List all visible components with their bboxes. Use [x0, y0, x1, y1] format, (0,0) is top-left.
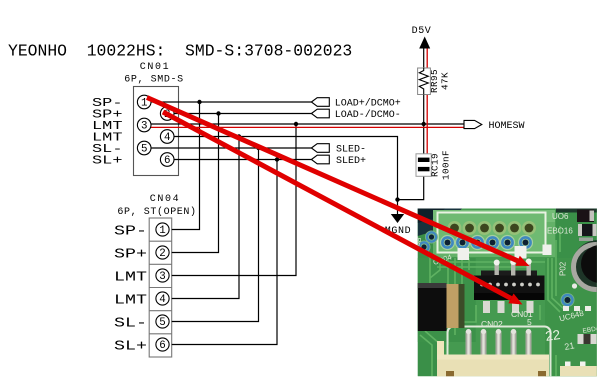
- svg-text:3: 3: [141, 120, 147, 132]
- svg-text:LOAD+/DCMO+: LOAD+/DCMO+: [335, 98, 401, 110]
- wire ground stub: [397, 200, 399, 214]
- svg-text:SLED-: SLED-: [336, 145, 366, 156]
- connector CN01 body: [134, 87, 179, 176]
- svg-text:22: 22: [544, 327, 561, 344]
- CN01 pin 2: [160, 107, 174, 121]
- red callout arrow A: [147, 98, 518, 261]
- svg-text:RR95: RR95: [429, 69, 440, 93]
- svg-text:21: 21: [564, 340, 576, 352]
- wire CN01 pin2 to LOAD- flag: [174, 113, 311, 115]
- CN01 pin 4: [160, 130, 174, 144]
- svg-text:RC19: RC19: [430, 153, 441, 177]
- red highlight vertical wire: [426, 44, 428, 154]
- CN01 pin 1: [137, 95, 151, 109]
- junction dot net2: [216, 111, 220, 115]
- svg-text:SL+: SL+: [114, 339, 147, 355]
- junction dot HOMESW node: [422, 122, 426, 126]
- wire node to capacitor: [423, 124, 425, 154]
- wire CN01 pin1 to LOAD+ flag: [151, 101, 312, 103]
- svg-text:6: 6: [159, 340, 165, 352]
- resistor RR95 zigzag: [419, 68, 428, 95]
- svg-text:EBO16: EBO16: [547, 227, 573, 236]
- photo crimp pins: [466, 329, 532, 358]
- photo lower hole row blue rings: [440, 235, 533, 250]
- flag HOMESW: [464, 120, 482, 128]
- svg-text:CN01: CN01: [140, 62, 170, 73]
- svg-text:SP-: SP-: [114, 224, 147, 240]
- wire CN01 pin4 to ground corner: [174, 137, 398, 200]
- photo traces: [420, 226, 565, 376]
- power D5V arrow: [419, 37, 430, 49]
- wire CN01 pin6 to SLED+ flag: [174, 159, 311, 161]
- junction dot net4: [237, 134, 241, 138]
- svg-text:100nF: 100nF: [441, 150, 452, 180]
- photo beige connector CN02: [437, 341, 444, 377]
- photo black component left: [418, 283, 447, 331]
- photo background pcb green: [418, 209, 597, 377]
- wire resistor to node: [423, 95, 425, 125]
- photo left margin holes: [425, 231, 438, 244]
- svg-text:D5V: D5V: [412, 26, 432, 37]
- photo silkscreen round outline: [448, 327, 551, 380]
- svg-text:LMT: LMT: [114, 270, 147, 286]
- red highlight horizontal wire: [151, 126, 464, 128]
- photo electrolytic cap P02: [572, 240, 606, 292]
- svg-text:LMT: LMT: [114, 293, 147, 309]
- svg-text:47K: 47K: [440, 72, 451, 90]
- wire CN01 pin5 to SLED- flag: [151, 147, 312, 149]
- photo connector pin heads row: [480, 283, 540, 287]
- wire D5V to resistor: [423, 46, 425, 68]
- svg-text:SP+: SP+: [114, 247, 147, 263]
- CN01 pin 3: [137, 118, 151, 132]
- wire capacitor to ground: [398, 176, 424, 199]
- photo resistor smd right: [578, 334, 597, 344]
- photo connector CN01 black body: [481, 271, 537, 277]
- flag SLED+: [311, 155, 329, 164]
- CN01 pin 5: [137, 141, 151, 155]
- CN04 pin 3: [156, 269, 169, 282]
- svg-text:1: 1: [159, 225, 165, 237]
- wire net2 vertical to CN04 pin2: [172, 114, 219, 253]
- wire net3 vertical to CN04 pin3: [172, 124, 296, 276]
- svg-text:CN04: CN04: [150, 194, 180, 205]
- svg-text:YEONHO 10022HS: SMD-S:3708-0: YEONHO 10022HS: SMD-S:3708-002023: [8, 42, 352, 61]
- svg-text:4: 4: [164, 132, 170, 144]
- photo dark top-left corner: [418, 209, 462, 237]
- junction dot net1: [197, 100, 201, 104]
- photo silkscreen rectangle: [438, 213, 546, 253]
- wire net6 vertical to CN04 pin6: [172, 160, 277, 345]
- svg-text:LOAD-/DCMO-: LOAD-/DCMO-: [335, 109, 401, 121]
- photo copper pour light region: [433, 210, 555, 257]
- CN04 pin 5: [156, 315, 169, 328]
- svg-text:3: 3: [159, 271, 165, 283]
- wire net1 vertical to CN04 pin1: [172, 102, 200, 230]
- wires black: [151, 46, 464, 345]
- wire net4 vertical to CN04 pin4: [172, 137, 239, 299]
- flag LOAD-/DCMO-: [311, 109, 329, 118]
- junction dot net3: [294, 122, 298, 126]
- photo small beige connector bottom right: [565, 362, 571, 368]
- resistor RR95 body: [418, 68, 431, 95]
- svg-text:4: 4: [159, 294, 165, 306]
- capacitor RC19 plates: [418, 158, 430, 162]
- svg-text:SL+: SL+: [92, 154, 123, 168]
- CN04 pin 1: [156, 223, 169, 236]
- CN04 pin 6: [156, 338, 169, 351]
- photo upper hole row: [448, 221, 537, 235]
- photo connector top pins: [494, 259, 532, 276]
- junction dot net6: [275, 157, 279, 161]
- junction dot ground node: [395, 197, 399, 201]
- red callout arrow B: [163, 112, 511, 298]
- ground MGND symbol: [391, 214, 404, 223]
- CN04 pin 4: [156, 292, 169, 305]
- svg-text:SLED+: SLED+: [336, 156, 366, 167]
- svg-text:5: 5: [159, 317, 165, 329]
- junction dot net5: [256, 146, 260, 150]
- CN04 pin 2: [156, 246, 169, 259]
- svg-text:2: 2: [159, 248, 165, 260]
- photo small white pads right: [563, 306, 569, 311]
- photo blue hole near cap: [561, 293, 575, 307]
- CN01 pin 6: [160, 153, 174, 167]
- connector CN04 body: [149, 218, 172, 357]
- wire CN01 pin3 to HOMESW flag: [151, 123, 464, 125]
- svg-text:6: 6: [164, 155, 170, 167]
- flag LOAD+/DCMO+: [311, 98, 329, 107]
- svg-text:SL-: SL-: [114, 316, 147, 332]
- svg-text:5: 5: [141, 143, 147, 155]
- photo connector bottom pads: [483, 301, 534, 313]
- wire net5 vertical to CN04 pin5: [172, 148, 259, 322]
- svg-text:6P, ST(OPEN): 6P, ST(OPEN): [117, 206, 196, 218]
- photo white pads: [458, 248, 470, 260]
- svg-text:HOMESW: HOMESW: [489, 121, 525, 132]
- capacitor RC19 body: [416, 154, 431, 177]
- svg-text:6P, SMD-S: 6P, SMD-S: [124, 75, 183, 86]
- flag SLED-: [311, 144, 329, 153]
- svg-text:P02: P02: [559, 261, 568, 276]
- svg-text:UO6: UO6: [552, 212, 569, 221]
- PCB photo inset: [414, 209, 606, 380]
